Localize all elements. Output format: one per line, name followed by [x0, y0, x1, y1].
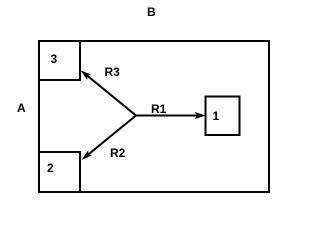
arrowhead R2 — [82, 150, 93, 160]
svg-text:1: 1 — [213, 109, 220, 123]
svg-text:3: 3 — [51, 52, 58, 66]
wire R1 — [136, 115, 197, 117]
svg-text:R3: R3 — [105, 65, 121, 79]
arrowhead R1 — [195, 112, 206, 119]
svg-text:A: A — [17, 101, 26, 115]
svg-text:2: 2 — [47, 161, 54, 175]
svg-text:R2: R2 — [110, 146, 126, 160]
svg-text:R1: R1 — [151, 102, 167, 116]
box 1 — [206, 97, 240, 136]
wire R2 — [88, 116, 136, 155]
outer boundary rectangle — [39, 41, 269, 192]
wire R3 — [87, 76, 136, 116]
svg-text:B: B — [147, 5, 156, 19]
box 3 — [39, 41, 80, 80]
arrowhead R3 — [81, 70, 92, 80]
box 2 — [39, 152, 80, 192]
